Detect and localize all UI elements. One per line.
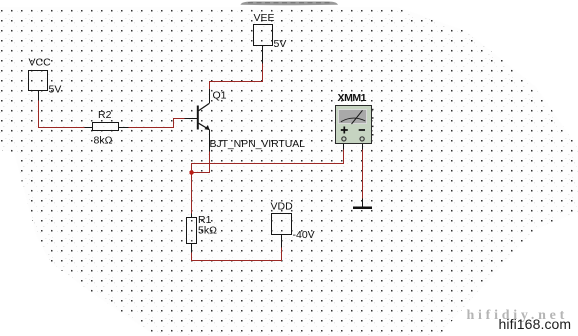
svg-text:hifi168.com: hifi168.com (499, 316, 572, 332)
wire node A to XMM1 plus (192, 150, 344, 173)
svg-text:8kΩ: 8kΩ (94, 135, 113, 147)
svg-text:BJT_NPN_VIRTUAL: BJT_NPN_VIRTUAL (210, 138, 306, 150)
power source VEE (254, 25, 273, 46)
Q1 emitter pin lead (209, 129, 211, 151)
node A junction dot (189, 170, 193, 174)
svg-text:5V: 5V (274, 38, 287, 50)
XMM1 minus terminal mark (359, 129, 365, 131)
power source VCC (29, 71, 48, 91)
svg-text:VDD: VDD (271, 201, 294, 213)
R2 pin leads (85, 127, 129, 129)
XMM1 terminal leads (344, 141, 363, 150)
XMM1 minus jack (360, 137, 364, 141)
ground pin lead (362, 199, 364, 208)
power source VDD (272, 214, 292, 235)
svg-text:5V: 5V (49, 84, 62, 96)
wire Q1 emitter down to node A (192, 152, 210, 173)
svg-text:-40V: -40V (293, 229, 315, 241)
wire node A to R1 (191, 173, 193, 214)
svg-text:XMM1: XMM1 (338, 92, 367, 104)
VDD pin lead (281, 235, 283, 248)
Q1 collector pin lead (209, 89, 211, 103)
R1 pin leads (191, 214, 193, 253)
emitter diagonal (199, 123, 210, 129)
wire R1 to VDD (192, 248, 282, 261)
XMM1 plus terminal mark (341, 127, 348, 134)
transistor Q1 (198, 103, 210, 130)
wire VCC to R2 (39, 101, 85, 128)
svg-text:Q1: Q1 (213, 90, 227, 102)
XMM1 needle (352, 110, 363, 124)
gray scrollbar blob top (241, 1, 339, 5)
svg-text:VEE: VEE (254, 12, 275, 24)
wire R2 to Q1 base (129, 119, 185, 128)
XMM1 display (339, 110, 367, 124)
wire Q1 collector to VEE (210, 64, 263, 90)
svg-text:R2: R2 (98, 109, 112, 121)
svg-text:VCC: VCC (29, 57, 52, 69)
XMM1 body (336, 106, 372, 144)
Q1 base pin lead (185, 118, 198, 120)
ground (353, 207, 372, 209)
multimeter XMM1 (336, 106, 374, 144)
svg-text:5kΩ: 5kΩ (198, 225, 217, 237)
wire XMM1 minus to ground (362, 150, 364, 199)
collector diagonal (199, 103, 210, 110)
resistor R1 (187, 218, 197, 244)
resistor R2 (93, 123, 119, 131)
emitter arrow (204, 125, 209, 130)
XMM1 scale arc (341, 118, 366, 122)
XMM1 side nubs (372, 109, 374, 111)
base bar (197, 106, 199, 130)
VEE pin lead (262, 46, 264, 64)
VCC pin lead (38, 91, 40, 101)
XMM1 plus jack (342, 137, 346, 141)
